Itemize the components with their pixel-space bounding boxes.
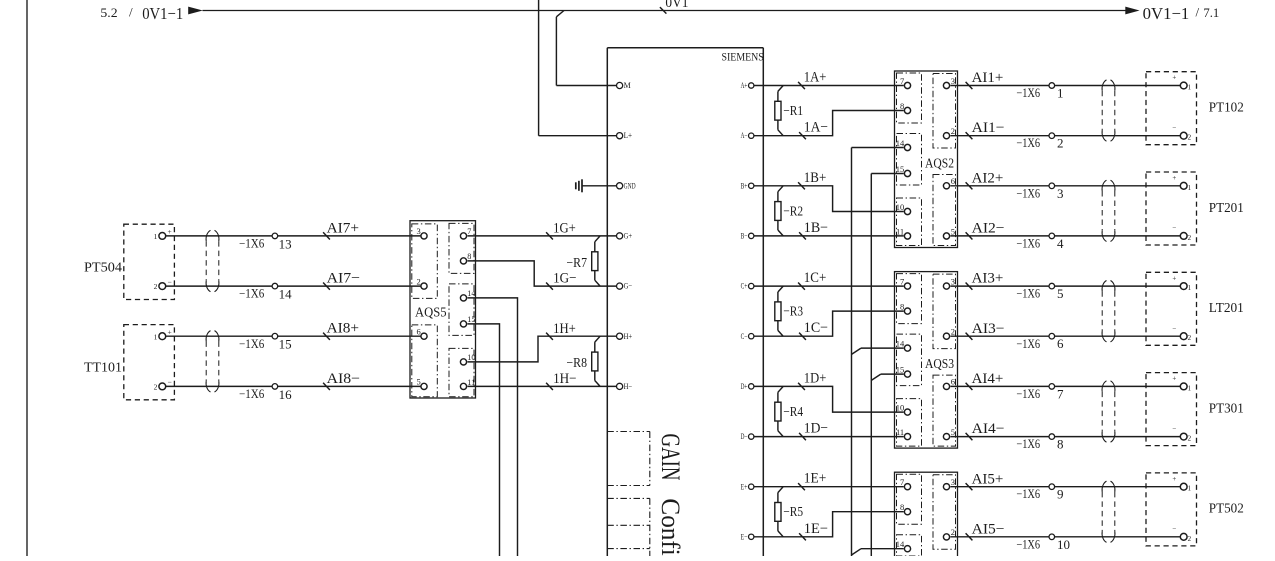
svg-text:PT301: PT301 [1209,401,1244,416]
svg-text:3: 3 [951,76,955,86]
svg-text:AI2−: AI2− [972,221,1005,237]
svg-text:AI4−: AI4− [972,421,1005,437]
svg-text:PT502: PT502 [1209,502,1244,517]
svg-text:2: 2 [1188,334,1192,342]
svg-text:−R7: −R7 [567,256,588,271]
svg-text:+: + [1172,375,1176,383]
svg-text:2: 2 [1188,234,1192,242]
svg-text:1C+: 1C+ [804,270,827,286]
svg-text:C−: C− [741,332,748,341]
svg-text:10: 10 [1057,537,1070,552]
svg-text:1G−: 1G− [553,271,577,287]
svg-text:7: 7 [900,477,904,487]
svg-text:1E+: 1E+ [804,471,827,487]
svg-text:B+: B+ [741,181,748,190]
svg-text:−1X6: −1X6 [239,287,264,301]
svg-text:+: + [1172,74,1176,82]
svg-text:6: 6 [951,377,955,387]
svg-text:PT102: PT102 [1209,101,1244,116]
svg-text:7.1: 7.1 [1203,5,1219,20]
svg-text:−1X6: −1X6 [1016,186,1040,200]
svg-text:9: 9 [1057,487,1064,502]
svg-text:AQS3: AQS3 [925,357,954,372]
svg-text:−1X6: −1X6 [1016,387,1040,401]
svg-text:B−: B− [741,232,748,241]
svg-text:−1X6: −1X6 [1016,86,1040,100]
svg-text:E−: E− [741,532,748,541]
svg-text:3: 3 [951,477,955,487]
svg-text:13: 13 [279,236,292,251]
svg-text:15: 15 [279,337,292,352]
svg-text:1: 1 [154,232,158,241]
svg-text:PT201: PT201 [1209,201,1244,216]
svg-text:4: 4 [1057,236,1064,251]
svg-text:AI2+: AI2+ [972,170,1004,186]
svg-text:1: 1 [1188,485,1192,493]
svg-text:3: 3 [1057,186,1064,201]
svg-text:Config: Config [656,498,685,556]
svg-text:1: 1 [1188,284,1192,292]
svg-text:−1X6: −1X6 [1016,287,1040,301]
svg-text:C+: C+ [741,282,748,291]
svg-text:5: 5 [951,226,955,236]
svg-text:2: 2 [416,276,420,286]
svg-text:D−: D− [741,432,748,441]
svg-text:AI8−: AI8− [327,371,361,387]
svg-text:/: / [1196,5,1200,20]
svg-text:−1X6: −1X6 [1016,337,1040,351]
svg-text:−1X6: −1X6 [239,237,264,251]
svg-text:1: 1 [154,332,158,341]
svg-text:AI8+: AI8+ [327,321,360,337]
svg-text:2: 2 [951,126,955,136]
svg-text:1E−: 1E− [804,521,828,537]
svg-text:−1X6: −1X6 [1016,537,1040,551]
svg-text:M: M [624,81,631,90]
svg-text:+: + [1172,174,1176,182]
svg-text:7: 7 [1057,386,1064,401]
svg-text:2: 2 [1188,535,1192,543]
svg-text:7: 7 [900,276,904,286]
svg-text:1B−: 1B− [804,220,828,236]
svg-text:2: 2 [154,282,158,291]
svg-text:TT101: TT101 [84,361,122,376]
svg-text:7: 7 [900,76,904,86]
svg-text:AI3−: AI3− [972,321,1005,337]
svg-text:2: 2 [1057,136,1064,151]
svg-text:2: 2 [1188,435,1192,443]
svg-text:14: 14 [896,138,905,148]
svg-text:1D−: 1D− [804,421,828,437]
svg-text:−: − [167,378,171,387]
svg-text:14: 14 [896,539,905,549]
svg-text:3: 3 [951,276,955,286]
svg-text:SIEMENS: SIEMENS [722,50,764,64]
svg-text:+: + [167,327,171,336]
svg-text:−1X6: −1X6 [239,387,264,401]
svg-text:1C−: 1C− [804,320,828,336]
svg-text:GAIN: GAIN [656,434,685,481]
svg-text:6: 6 [416,327,420,337]
svg-text:7: 7 [467,227,471,236]
svg-text:−: − [167,277,171,286]
svg-text:1: 1 [1188,184,1192,192]
svg-text:−R4: −R4 [783,405,803,420]
svg-text:5: 5 [416,377,420,387]
svg-text:1A−: 1A− [804,120,828,136]
svg-text:−R2: −R2 [783,204,803,219]
svg-text:1: 1 [1188,84,1192,92]
svg-text:5: 5 [1057,286,1064,301]
svg-text:−R8: −R8 [567,356,588,371]
svg-text:E+: E+ [741,482,748,491]
svg-text:AI7−: AI7− [327,271,361,287]
svg-text:−1X6: −1X6 [1016,487,1040,501]
svg-text:1: 1 [1057,86,1064,101]
svg-text:−1X6: −1X6 [239,337,264,351]
svg-text:+: + [167,227,171,236]
svg-text:1: 1 [1188,384,1192,392]
svg-text:11: 11 [896,226,904,236]
svg-text:PT504: PT504 [84,260,122,275]
svg-text:AI7+: AI7+ [327,220,360,236]
svg-text:−: − [1172,525,1176,533]
svg-text:2: 2 [1188,134,1192,142]
svg-text:1D+: 1D+ [804,370,827,386]
svg-text:H−: H− [624,382,633,391]
svg-text:14: 14 [279,287,293,302]
svg-text:11: 11 [896,427,904,437]
svg-text:−R3: −R3 [783,305,803,320]
svg-text:1G+: 1G+ [553,221,576,237]
svg-text:AI5−: AI5− [972,521,1005,537]
svg-text:2: 2 [951,527,955,537]
svg-text:AI4+: AI4+ [972,371,1004,387]
svg-text:0V1−1: 0V1−1 [1143,4,1190,23]
svg-text:2: 2 [154,383,158,392]
svg-text:−: − [1172,425,1176,433]
svg-text:AI1+: AI1+ [972,70,1004,86]
svg-text:/: / [129,5,133,20]
svg-text:AQS5: AQS5 [415,306,447,321]
svg-text:AI5+: AI5+ [972,471,1004,487]
svg-text:16: 16 [279,387,293,402]
svg-text:−R5: −R5 [783,505,803,520]
svg-text:H+: H+ [624,332,633,341]
svg-text:6: 6 [1057,336,1064,351]
svg-text:0V1−1: 0V1−1 [142,4,183,23]
svg-text:8: 8 [900,101,904,111]
svg-text:2: 2 [951,327,955,337]
svg-text:3: 3 [416,226,420,236]
svg-text:LT201: LT201 [1209,301,1244,316]
svg-text:14: 14 [896,338,905,348]
svg-text:8: 8 [467,252,471,261]
svg-text:G+: G+ [624,232,633,241]
svg-text:−1X6: −1X6 [1016,136,1040,150]
svg-text:+: + [1172,475,1176,483]
svg-text:D+: D+ [741,382,748,391]
svg-text:L+: L+ [624,131,633,140]
svg-text:1H−: 1H− [553,371,577,387]
svg-text:−1X6: −1X6 [1016,236,1040,250]
svg-text:1B+: 1B+ [804,170,827,186]
svg-text:8: 8 [900,502,904,512]
svg-text:8: 8 [900,301,904,311]
svg-text:−: − [1172,124,1176,132]
svg-text:−: − [1172,224,1176,232]
svg-text:6: 6 [951,176,955,186]
svg-text:+: + [1172,274,1176,282]
svg-text:AI3+: AI3+ [972,271,1004,287]
svg-text:GND: GND [624,181,636,190]
svg-text:1H+: 1H+ [553,321,576,337]
svg-text:5: 5 [951,427,955,437]
svg-text:A+: A+ [741,81,748,90]
svg-text:0V1: 0V1 [665,0,688,11]
svg-text:8: 8 [1057,437,1064,452]
svg-text:5.2: 5.2 [100,5,117,20]
svg-text:−R1: −R1 [783,104,803,119]
svg-text:G−: G− [624,282,633,291]
svg-text:1A+: 1A+ [804,70,827,86]
svg-text:A−: A− [741,131,748,140]
svg-text:−1X6: −1X6 [1016,437,1040,451]
svg-text:−: − [1172,324,1176,332]
svg-text:AI1−: AI1− [972,120,1005,136]
svg-text:AQS2: AQS2 [925,157,954,172]
